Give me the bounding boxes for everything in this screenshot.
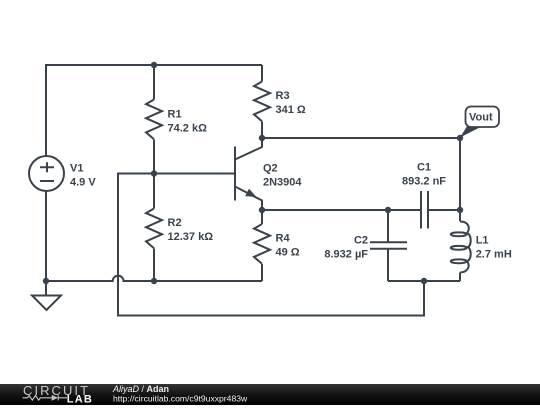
svg-text:341 Ω: 341 Ω (276, 104, 306, 116)
svg-text:8.932 µF: 8.932 µF (324, 249, 368, 261)
svg-text:L1: L1 (476, 235, 489, 247)
svg-text:4.9 V: 4.9 V (70, 176, 96, 188)
svg-text:C2: C2 (354, 235, 368, 247)
svg-text:R3: R3 (276, 90, 290, 102)
svg-text:Vout: Vout (469, 112, 493, 124)
svg-text:2.7 mH: 2.7 mH (476, 249, 512, 261)
svg-text:49 Ω: 49 Ω (276, 247, 300, 259)
svg-text:74.2 kΩ: 74.2 kΩ (168, 122, 208, 134)
svg-text:893.2 nF: 893.2 nF (402, 176, 446, 188)
svg-text:12.37 kΩ: 12.37 kΩ (168, 231, 214, 243)
svg-text:V1: V1 (70, 162, 83, 174)
svg-text:C1: C1 (417, 162, 431, 174)
svg-text:LAB: LAB (67, 393, 93, 405)
svg-text:R1: R1 (168, 108, 182, 120)
svg-text:http://circuitlab.com/c9t9uxxp: http://circuitlab.com/c9t9uxxpr483w (113, 393, 248, 403)
svg-text:Q2: Q2 (263, 163, 278, 175)
svg-text:2N3904: 2N3904 (263, 177, 302, 189)
svg-text:R4: R4 (276, 233, 291, 245)
svg-text:R2: R2 (168, 217, 182, 229)
